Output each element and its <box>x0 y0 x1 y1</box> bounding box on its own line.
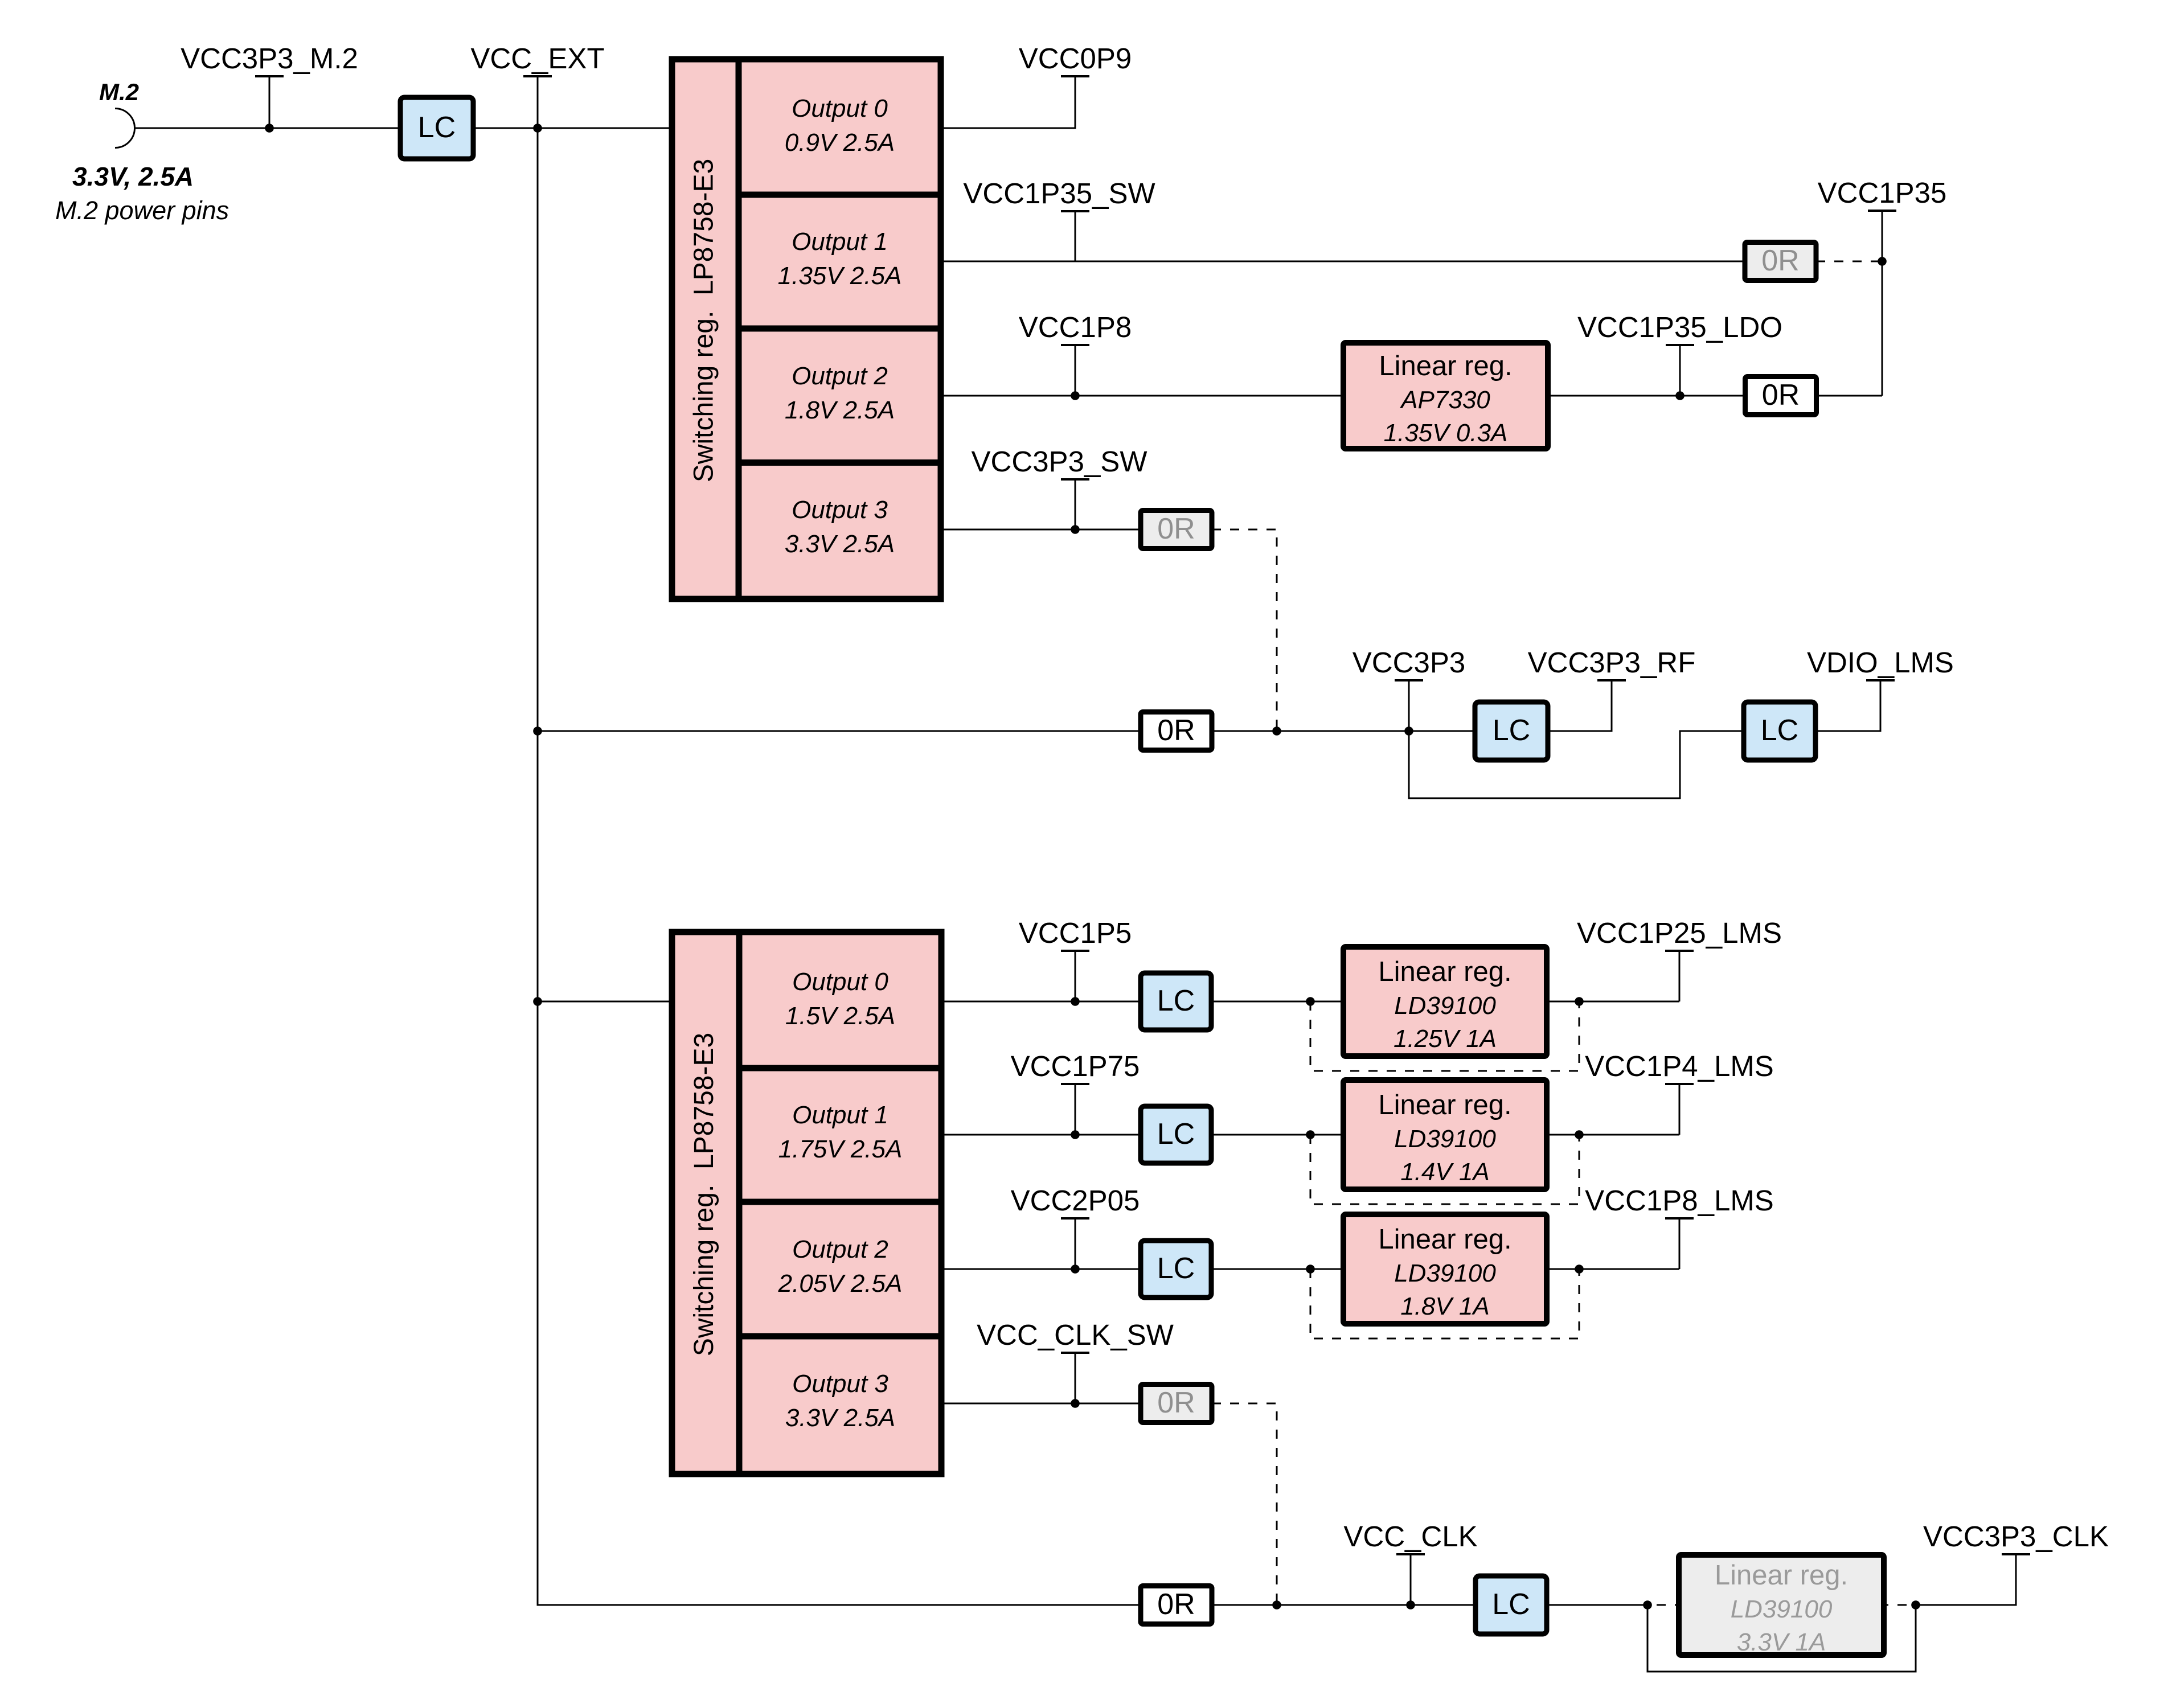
svg-text:VCC1P8: VCC1P8 <box>1019 311 1132 343</box>
wire VCC3P3 loop to second LC <box>1409 731 1744 798</box>
wire LC to switching regulator U1 <box>473 128 672 129</box>
svg-text:0R: 0R <box>1762 379 1800 412</box>
svg-text:0R: 0R <box>1157 1386 1195 1419</box>
svg-text:AP7330: AP7330 <box>1399 386 1490 414</box>
svg-text:0R: 0R <box>1157 512 1195 545</box>
M.2 connector half-circle <box>115 109 135 148</box>
wire U2 output (VCC1P5) to LC <box>941 1001 1141 1003</box>
svg-text:VCC_CLK_SW: VCC_CLK_SW <box>977 1319 1174 1351</box>
svg-text:Switching reg. LP8758-E3: Switching reg. LP8758-E3 <box>689 1033 719 1356</box>
svg-text:VCC_EXT: VCC_EXT <box>470 42 604 75</box>
svg-text:Output 2: Output 2 <box>792 362 888 390</box>
wire U2 output (VCC2P05) to LC <box>941 1268 1141 1270</box>
dashed bypass around U6 <box>1310 1269 1579 1339</box>
wire up to VCC1P25_LMS rail <box>1679 951 1681 1001</box>
junction VCC2P05 bypass input <box>1306 1264 1315 1274</box>
wire LC to linear regulator U5 <box>1211 1134 1343 1136</box>
net VCC0P9 power rail <box>1019 42 1132 76</box>
net VCC3P3_RF power rail <box>1528 646 1696 680</box>
net VCC1P75 power rail <box>1011 1050 1140 1135</box>
net VCC1P35 power rail <box>1818 176 1947 261</box>
junction node VCC_CLK <box>1406 1600 1415 1610</box>
svg-text:VCC3P3_CLK: VCC3P3_CLK <box>1923 1520 2109 1553</box>
junction VCC_EXT bus to switching regulator U2 <box>533 997 542 1006</box>
resistor 0R VCC_EXT to VCC3P3 <box>1141 712 1212 750</box>
linear regulator U7 LD39100 (not fitted) <box>1679 1555 1884 1656</box>
net VCC3P3_SW power rail <box>972 445 1147 529</box>
svg-text:LC: LC <box>1761 714 1798 747</box>
svg-text:LC: LC <box>418 111 456 144</box>
wire U4 output (VCC1P25_LMS) <box>1547 1001 1679 1003</box>
svg-text:VCC1P35_LDO: VCC1P35_LDO <box>1577 311 1782 343</box>
switching regulator U2 LP8758-E3 <box>672 932 941 1474</box>
svg-text:2.05V 2.5A: 2.05V 2.5A <box>778 1270 903 1298</box>
wire U1 output0 to VCC0P9 rail <box>941 76 1075 128</box>
svg-text:VCC1P4_LMS: VCC1P4_LMS <box>1585 1050 1774 1082</box>
resistor 0R VCC_EXT to VCC_CLK <box>1141 1586 1212 1624</box>
svg-text:1.8V 2.5A: 1.8V 2.5A <box>785 396 895 424</box>
wire VCC_EXT to switching regulator U2 <box>538 1001 672 1003</box>
linear regulator U5 LD39100 1.4V 1A <box>1343 1080 1547 1189</box>
svg-text:Linear reg.: Linear reg. <box>1378 1224 1511 1255</box>
svg-text:3.3V 1A: 3.3V 1A <box>1737 1628 1826 1656</box>
LC filter (VCC3P3 to VDIO_LMS) <box>1744 702 1815 760</box>
junction VCC1P35_LDO <box>1675 391 1685 400</box>
net VCC3P3 power rail <box>1352 646 1465 731</box>
svg-text:0R: 0R <box>1761 244 1799 277</box>
net VCC1P5 power rail <box>1019 917 1132 1001</box>
dashed wire 0R to VCC3P3 wire <box>1212 529 1277 731</box>
wire up to VCC1P8_LMS rail <box>1679 1218 1681 1269</box>
svg-text:Output 2: Output 2 <box>792 1235 888 1263</box>
LC filter (VCC2P05) <box>1141 1241 1211 1298</box>
LC filter (VCC_CLK to VCC3P3_CLK) <box>1476 1576 1547 1634</box>
net VCC3P3_M.2 power rail <box>181 42 358 133</box>
LC filter (VCC1P75) <box>1141 1106 1211 1163</box>
svg-text:Switching reg. LP8758-E3: Switching reg. LP8758-E3 <box>689 159 719 482</box>
svg-text:0R: 0R <box>1157 714 1195 747</box>
junction VCC1P75 <box>1071 1130 1080 1139</box>
resistor 0R (not fitted) VCC_CLK_SW to VCC_CLK <box>1141 1385 1212 1423</box>
wire to VCC3P3_CLK rail <box>1916 1554 2016 1605</box>
net VCC_CLK_SW power rail <box>977 1319 1174 1403</box>
svg-text:Linear reg.: Linear reg. <box>1378 1090 1511 1120</box>
junction VCC1P25_LMS bypass output <box>1575 997 1584 1006</box>
linear regulator U4 LD39100 1.25V 1A <box>1343 947 1547 1056</box>
junction dashed VCC_CLK_SW joins VCC_CLK <box>1272 1600 1281 1610</box>
dashed stub into U7 <box>1647 1604 1679 1606</box>
dashed stub out of U7 <box>1884 1604 1916 1606</box>
net VCC1P35_SW power rail <box>963 177 1155 261</box>
svg-text:Output 3: Output 3 <box>792 496 888 524</box>
svg-text:1.8V 1A: 1.8V 1A <box>1400 1292 1490 1320</box>
net VCC3P3_CLK power rail <box>1923 1520 2109 1554</box>
bypass wire around U7 <box>1647 1605 1916 1672</box>
resistor 0R (not fitted) VCC1P35_SW to VCC1P35 <box>1745 243 1816 281</box>
wire U1 output1 (VCC1P35_SW) to resistor <box>941 261 1745 262</box>
svg-text:Output 0: Output 0 <box>792 968 888 996</box>
svg-text:1.4V 1A: 1.4V 1A <box>1400 1158 1490 1186</box>
dashed bypass around U4 <box>1310 1001 1579 1071</box>
net VCC_CLK power rail <box>1343 1520 1477 1605</box>
svg-text:VCC3P3_M.2: VCC3P3_M.2 <box>181 42 358 75</box>
svg-text:0.9V 2.5A: 0.9V 2.5A <box>785 129 895 157</box>
junction VCC_CLK_SW <box>1071 1399 1080 1408</box>
wire LC to VDIO_LMS rail <box>1815 680 1880 731</box>
wire to 0R output side <box>1817 395 1882 397</box>
wire LC to linear regulator U4 <box>1211 1001 1343 1003</box>
svg-text:1.35V 2.5A: 1.35V 2.5A <box>778 262 902 290</box>
LC filter (VCC1P5) <box>1141 973 1211 1030</box>
svg-text:Linear reg.: Linear reg. <box>1378 956 1511 987</box>
svg-text:LD39100: LD39100 <box>1731 1595 1833 1623</box>
net VCC2P05 power rail <box>1011 1184 1140 1269</box>
svg-text:Output 1: Output 1 <box>792 228 888 256</box>
wire VCC_EXT branch to 0R (VCC3P3) <box>538 730 1141 732</box>
svg-text:VCC1P8_LMS: VCC1P8_LMS <box>1585 1184 1774 1217</box>
svg-text:Output 0: Output 0 <box>792 95 888 122</box>
wire U2 output3 (VCC_CLK_SW) to resistor <box>941 1403 1141 1405</box>
wire VCC1P35 node down <box>1882 261 1883 396</box>
svg-text:VCC3P3_RF: VCC3P3_RF <box>1528 646 1696 679</box>
svg-text:VDIO_LMS: VDIO_LMS <box>1807 646 1954 679</box>
net VCC1P8_LMS power rail <box>1585 1184 1774 1218</box>
svg-text:M.2: M.2 <box>99 79 139 105</box>
svg-text:VCC1P5: VCC1P5 <box>1019 917 1132 949</box>
LC filter (VCC3P3_M.2 to VCC_EXT) <box>400 97 473 159</box>
svg-text:LC: LC <box>1493 714 1530 747</box>
junction U7 input bypass <box>1643 1600 1652 1610</box>
resistor 0R VCC1P35_LDO to VCC1P35 <box>1745 377 1817 415</box>
junction VCC1P5 bypass input <box>1306 997 1315 1006</box>
svg-text:LD39100: LD39100 <box>1394 992 1496 1020</box>
net VCC_EXT power rail <box>470 42 604 133</box>
wire U6 output (VCC1P8_LMS) <box>1547 1268 1679 1270</box>
net VCC1P25_LMS power rail <box>1577 917 1782 951</box>
svg-text:1.75V 2.5A: 1.75V 2.5A <box>778 1135 903 1163</box>
junction U7 output bypass <box>1911 1600 1920 1610</box>
wire AP7330 output to 0R <box>1548 395 1745 397</box>
junction VCC2P05 <box>1071 1264 1080 1274</box>
svg-text:LC: LC <box>1157 984 1195 1017</box>
svg-text:LC: LC <box>1157 1252 1195 1285</box>
svg-text:M.2 power pins: M.2 power pins <box>55 196 229 225</box>
svg-text:LD39100: LD39100 <box>1394 1125 1496 1153</box>
wire up to VCC1P4_LMS rail <box>1679 1084 1681 1135</box>
svg-text:LC: LC <box>1492 1588 1530 1621</box>
svg-text:Output 1: Output 1 <box>792 1101 888 1129</box>
svg-text:3.3V 2.5A: 3.3V 2.5A <box>785 1404 895 1432</box>
VCC_EXT vertical bus <box>538 128 1141 1605</box>
svg-text:VCC1P35: VCC1P35 <box>1818 176 1947 209</box>
svg-text:1.25V 1A: 1.25V 1A <box>1394 1025 1497 1053</box>
wire U1 output3 (VCC3P3_SW) to resistor <box>941 529 1141 531</box>
LC filter (VCC3P3 to VCC3P3_RF) <box>1475 702 1548 760</box>
svg-text:Linear reg.: Linear reg. <box>1715 1560 1848 1591</box>
junction node VCC3P3 <box>1404 726 1413 736</box>
svg-text:VCC_CLK: VCC_CLK <box>1343 1520 1477 1553</box>
svg-text:VCC1P25_LMS: VCC1P25_LMS <box>1577 917 1782 949</box>
svg-text:3.3V 2.5A: 3.3V 2.5A <box>785 530 895 558</box>
svg-text:VCC1P75: VCC1P75 <box>1011 1050 1140 1082</box>
wire LC to linear regulator U6 <box>1211 1268 1343 1270</box>
svg-text:0R: 0R <box>1157 1588 1195 1621</box>
wire 0R to LC (VCC_CLK) <box>1212 1604 1476 1606</box>
dashed wire 0R to VCC1P35 node <box>1816 261 1882 262</box>
wire U5 output (VCC1P4_LMS) <box>1547 1134 1679 1136</box>
junction node VCC1P35 <box>1878 257 1887 266</box>
dashed wire 0R to VCC_CLK wire <box>1212 1403 1277 1605</box>
svg-text:1.35V 0.3A: 1.35V 0.3A <box>1384 419 1508 447</box>
net VCC1P8 power rail <box>1019 311 1132 400</box>
net VCC1P35_LDO power rail <box>1577 311 1782 396</box>
net VCC1P4_LMS power rail <box>1585 1050 1774 1084</box>
svg-text:3.3V, 2.5A: 3.3V, 2.5A <box>72 162 194 191</box>
svg-text:1.5V 2.5A: 1.5V 2.5A <box>785 1002 895 1030</box>
switching regulator U1 LP8758-E3 <box>672 59 941 599</box>
resistor 0R (not fitted) VCC3P3_SW to VCC3P3 <box>1141 511 1212 549</box>
linear regulator U3 AP7330 1.35V <box>1343 343 1548 449</box>
junction VCC_EXT bus to VCC3P3 branch <box>533 726 542 736</box>
svg-text:Output 3: Output 3 <box>792 1370 888 1398</box>
junction VCC1P5 <box>1071 997 1080 1006</box>
wire U1 output2 (VCC1P8) to linear regulator <box>941 395 1343 397</box>
wire U2 output (VCC1P75) to LC <box>941 1134 1141 1136</box>
svg-text:VCC3P3: VCC3P3 <box>1352 646 1465 679</box>
junction VCC1P75 bypass input <box>1306 1130 1315 1139</box>
dashed bypass around U5 <box>1310 1135 1579 1204</box>
linear regulator U6 LD39100 1.8V 1A <box>1343 1214 1547 1324</box>
wire LC to linear regulator U7 <box>1547 1604 1647 1606</box>
wire 0R to LC (VCC3P3) <box>1212 730 1475 732</box>
svg-text:VCC0P9: VCC0P9 <box>1019 42 1132 75</box>
svg-text:VCC2P05: VCC2P05 <box>1011 1184 1140 1217</box>
junction dashed VCC3P3_SW joins VCC3P3 <box>1272 726 1281 736</box>
svg-text:VCC1P35_SW: VCC1P35_SW <box>963 177 1155 210</box>
net VDIO_LMS power rail <box>1807 646 1954 680</box>
svg-text:Linear reg.: Linear reg. <box>1379 351 1512 381</box>
wire LC to VCC3P3_RF rail <box>1548 680 1612 731</box>
svg-text:LD39100: LD39100 <box>1394 1259 1496 1287</box>
svg-text:LC: LC <box>1157 1118 1195 1151</box>
junction VCC1P8_LMS bypass output <box>1575 1264 1584 1274</box>
junction VCC3P3_SW <box>1071 525 1080 534</box>
wire M.2 to LC filter <box>135 128 401 129</box>
svg-text:VCC3P3_SW: VCC3P3_SW <box>972 445 1147 478</box>
junction VCC1P4_LMS bypass output <box>1575 1130 1584 1139</box>
